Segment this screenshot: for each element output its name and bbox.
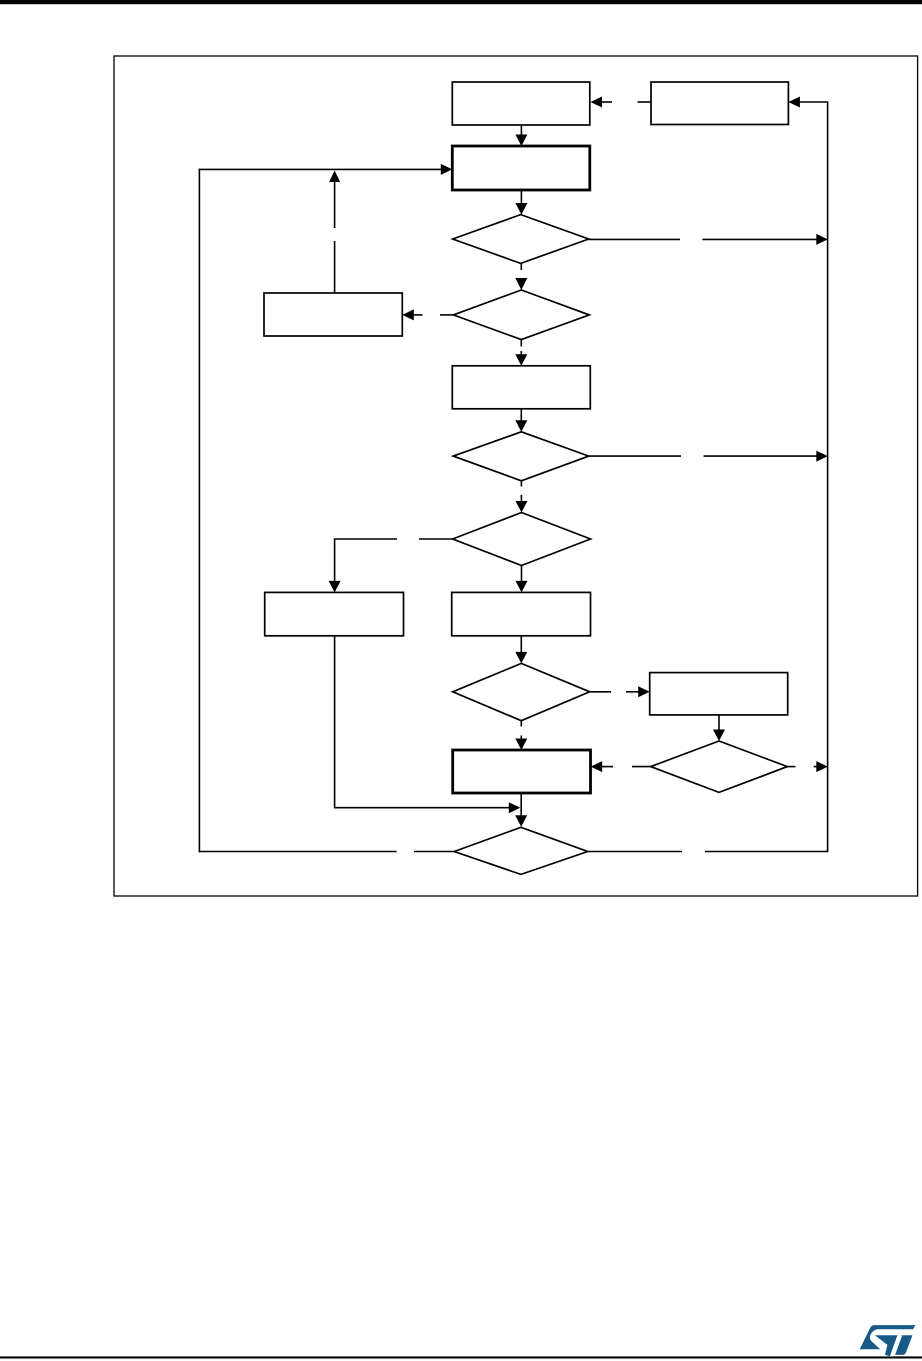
wire D1 to D2 stub xyxy=(520,263,522,270)
arrow from B4 up into loop line xyxy=(329,171,340,183)
wire D4 left stub xyxy=(419,538,453,540)
box B7 (center lower) xyxy=(452,592,591,635)
arrow into B6 top xyxy=(329,581,341,593)
arrow into D3 top xyxy=(515,420,527,432)
diamond D7 xyxy=(454,827,588,874)
wire B4 up segment a xyxy=(334,181,336,228)
arrow into right line at D6 level xyxy=(816,761,828,772)
wire D1 to right line segment b xyxy=(702,238,817,240)
page top rule xyxy=(0,0,922,4)
wire right vertical return line xyxy=(827,102,829,852)
wire B4 up segment b xyxy=(334,241,336,293)
wire D7 right stub xyxy=(588,851,682,853)
arrow into right line at D1 level xyxy=(816,234,828,245)
wire D6 left stub xyxy=(632,766,651,768)
wire D3 to D4 segment b xyxy=(520,495,522,502)
wire D1 to right line segment a xyxy=(589,238,680,240)
diamond D3 xyxy=(453,432,588,481)
arrow into B3 top xyxy=(515,135,527,147)
wire D6 right stub xyxy=(787,766,795,768)
wire left loop horizontal into B3 xyxy=(199,168,442,170)
wire B3 to D1 xyxy=(520,190,522,203)
arrow into B5 top xyxy=(515,354,527,366)
wire toward right line xyxy=(814,766,817,768)
arrow into B1 right edge xyxy=(591,97,603,108)
wire toward B4 xyxy=(411,314,422,316)
wire B2 to B1 (segment near B1) xyxy=(601,101,612,103)
arrow into B4 right edge xyxy=(402,309,414,320)
wire D5 to B9 stub xyxy=(520,721,522,727)
arrow into D1 top xyxy=(515,203,527,215)
diamond D1 xyxy=(453,215,589,264)
diamond D4 xyxy=(453,513,591,566)
wire D3 to right line segment a xyxy=(589,455,681,457)
wire D2 to B5 segment b xyxy=(520,351,522,355)
arrow into right line at D3 level xyxy=(816,451,828,462)
arrow into B2 right edge xyxy=(788,97,800,108)
box B8 (right lower) xyxy=(650,673,788,715)
arrow into B9-D7 wire junction xyxy=(509,802,521,813)
wire B8 to D6 xyxy=(718,715,720,731)
wire D3 to D4 segment a xyxy=(520,481,522,487)
wire stub at B2 left edge xyxy=(638,101,652,103)
wire D5 to B8 stub xyxy=(590,691,611,693)
wire B9 to D7 xyxy=(520,793,522,817)
arrow into B7 top xyxy=(516,581,528,593)
wire B5 to D3 xyxy=(520,409,522,423)
wire D2 left stub xyxy=(440,314,453,316)
arrow into D5 top xyxy=(515,652,527,664)
box B4 (left upper) xyxy=(264,293,402,336)
wire D2 to B5 stub xyxy=(520,340,522,347)
wire corner into B2 xyxy=(799,101,828,103)
arrow into D7 top xyxy=(515,815,527,827)
box B2 (top right) xyxy=(651,82,788,125)
ST logo xyxy=(860,1325,916,1356)
wire D3 to right line segment b xyxy=(704,455,817,457)
diamond D6 xyxy=(651,741,788,792)
box B9 (bold, bottom center) xyxy=(453,750,591,793)
wire D7 left stub xyxy=(414,851,454,853)
arrow into B9 top xyxy=(515,739,527,751)
wire D4 to B6 corner xyxy=(335,539,397,581)
arrow into D4 top xyxy=(516,501,528,513)
wire toward B9 xyxy=(602,766,613,768)
arrow into B8 left edge xyxy=(638,686,650,697)
box B5 (center) xyxy=(452,366,590,409)
wire B1 to B3 xyxy=(520,125,522,136)
wire B7 to D5 xyxy=(520,636,522,653)
figure frame xyxy=(114,56,918,896)
page bottom rule xyxy=(0,1356,922,1358)
wire D7 to left return line xyxy=(199,851,397,853)
wire D5 to B9 segment b xyxy=(520,736,522,741)
arrow into D6 top xyxy=(713,730,725,742)
wire B6 down and right to junction xyxy=(335,636,510,808)
wire D7 to right return line xyxy=(705,851,828,853)
arrow into D2 top xyxy=(515,278,527,290)
diamond D5 xyxy=(453,663,590,720)
box B3 (bold, center) xyxy=(452,146,590,190)
wire left vertical return line xyxy=(198,169,200,853)
box B1 (top center) xyxy=(452,82,590,125)
arrow into B9 right edge xyxy=(591,761,603,772)
diamond D2 xyxy=(453,290,589,340)
wire toward B8 xyxy=(626,691,639,693)
arrow into B3 left edge xyxy=(441,164,453,175)
box B6 (left lower) xyxy=(265,592,404,635)
wire D4 to B7 xyxy=(521,566,523,582)
